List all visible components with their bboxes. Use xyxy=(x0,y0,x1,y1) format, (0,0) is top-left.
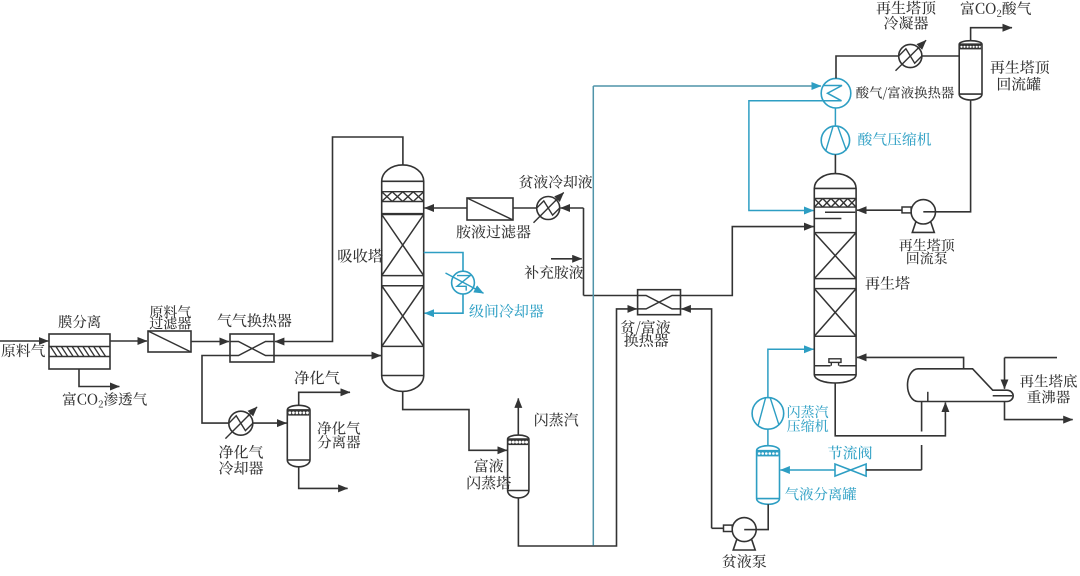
wire cooler to purge separator xyxy=(253,422,287,424)
wire rich heated to regenerator xyxy=(681,227,814,296)
wire CO2-rich permeate xyxy=(79,369,119,387)
raw gas filter 原料气过滤器 xyxy=(148,331,191,352)
label 再生塔 xyxy=(865,276,909,290)
wire reboiler liquid to throttle valve xyxy=(921,402,923,432)
absorber column 吸收塔 xyxy=(382,165,424,392)
label 再生塔底重沸器 xyxy=(1020,374,1077,388)
label 闪蒸汽压缩机 xyxy=(788,405,828,418)
wire hot stream inlet to reboiler xyxy=(1005,357,1058,359)
wire reflux to regenerator xyxy=(857,209,902,211)
lean amine pump 贫液泵 xyxy=(733,540,755,550)
wire flash vapor to acid-gas exchanger xyxy=(593,85,821,87)
regenerator column 再生塔 xyxy=(814,174,856,383)
wire valve to KO drum (cyan) xyxy=(780,469,835,471)
label 再生塔顶冷凝器 xyxy=(876,1,935,15)
kettle reboiler 再生塔底重沸器 xyxy=(907,369,1013,402)
acid-gas/rich-liquid exchanger 酸气/富液换热器 xyxy=(821,78,851,108)
lean/rich heat exchanger 贫/富液换热器 xyxy=(638,290,681,315)
purified gas cooler 净化气冷却器 xyxy=(229,411,253,435)
wire filter to lean cooler xyxy=(513,207,537,209)
wire rich CO2 acid gas product xyxy=(971,28,1012,41)
wire exchanger to condenser xyxy=(836,56,899,78)
wire lean pump discharge to exchanger xyxy=(681,309,711,528)
wire flash bottoms to exchanger xyxy=(518,309,636,546)
label 吸收塔 xyxy=(338,249,383,263)
wire lean pump discharge xyxy=(712,527,724,529)
wire flash vapor vent 闪蒸汽 xyxy=(517,398,519,435)
label 节流阀 xyxy=(828,446,872,460)
wire filter to gas-gas exchanger xyxy=(191,341,229,343)
label 富液闪蒸塔 xyxy=(474,458,503,472)
label 贫液冷却液 xyxy=(519,175,592,189)
label 净化气分离器 xyxy=(318,421,361,434)
label 酸气/富液换热器 xyxy=(856,86,954,100)
wire absorber overhead to exchanger xyxy=(275,137,403,342)
label 富CO2渗透气 xyxy=(63,392,147,407)
wire compressor to KO drum (cyan) xyxy=(767,429,769,446)
membrane separator 膜分离 xyxy=(49,334,110,369)
wire exchanger to compressor (cyan) xyxy=(834,108,836,126)
wire membrane to filter xyxy=(110,340,147,342)
label 再生塔顶回流罐 xyxy=(990,60,1049,74)
wire exchanger to absorber feed xyxy=(274,355,381,357)
reflux pump 再生塔顶回流泵 xyxy=(912,222,934,232)
gas-liquid separator drum 气液分离罐 xyxy=(757,446,780,505)
label 膜分离 xyxy=(58,315,100,328)
label 净化气冷却器 xyxy=(219,445,263,459)
amine filter 胺液过滤器 xyxy=(467,198,513,220)
lean amine cooler 贫液冷却液 xyxy=(537,197,560,220)
label 气气换热器 xyxy=(217,313,291,327)
wire reboiler vapor return xyxy=(857,357,964,368)
label 贫液泵 xyxy=(722,554,766,568)
rich flash tower 富液闪蒸塔 xyxy=(508,435,529,498)
regenerator overhead condenser 再生塔顶冷凝器 xyxy=(899,44,922,67)
label 富CO2酸气 xyxy=(961,1,1031,17)
wire exchanger shell out to regen (cyan) xyxy=(749,101,823,211)
interstage cooler 级间冷却器 xyxy=(452,271,475,294)
wire flash compressor to regenerator (cyan) xyxy=(768,349,814,397)
label 闪蒸汽 (flash steam) xyxy=(535,413,578,427)
label 酸气压缩机 xyxy=(858,132,931,146)
label 补充胺液 xyxy=(525,265,583,279)
wire purified gas outlet xyxy=(299,392,350,405)
wire flash vapor riser (cyan) xyxy=(592,86,594,546)
label 级间冷却器 xyxy=(469,304,543,318)
acid gas compressor 酸气压缩机 xyxy=(821,126,849,154)
label 再生塔顶回流泵 xyxy=(899,239,954,252)
wire compressor to regenerator top xyxy=(834,155,836,174)
wire reboiler product outlet xyxy=(1005,402,1073,420)
wire condenser to reflux drum xyxy=(922,55,959,57)
gas-gas heat exchanger 气气换热器 xyxy=(230,334,274,362)
label 原料气过滤器 xyxy=(150,305,191,318)
purified gas separator 净化气分离器 xyxy=(287,405,310,467)
wire raw gas inlet 原料气 xyxy=(0,340,48,342)
label 胺液过滤器 xyxy=(457,225,531,239)
wire KO drum to lean pump xyxy=(744,504,768,529)
wire rich feed arrow into regenerator xyxy=(809,226,811,228)
throttle valve 节流阀 xyxy=(835,464,866,476)
wire makeup amine 补充胺液 xyxy=(551,258,582,260)
wire absorber to interstage cooler xyxy=(424,253,463,272)
label 净化气 (purified gas) xyxy=(295,370,340,384)
wire drum to reflux pump xyxy=(923,100,970,212)
flash vapor compressor 闪蒸汽压缩机 xyxy=(752,398,784,430)
wire interstage cooler return xyxy=(425,294,463,313)
wire amine filter to absorber xyxy=(425,207,467,209)
wire regenerator bottoms to reboiler xyxy=(835,383,945,436)
wire lean to exchanger upper-left xyxy=(584,295,638,297)
label 贫/富液换热器 xyxy=(621,320,670,335)
label 原料气 (raw gas) xyxy=(1,344,45,358)
label 气液分离罐 xyxy=(785,487,856,500)
reflux drum 再生塔顶回流罐 xyxy=(959,41,982,100)
wire absorber bottoms to flash tower xyxy=(403,391,507,450)
wire separator bottom outlet xyxy=(299,467,348,489)
wire exchanger to purge gas cooler xyxy=(202,356,230,424)
wire lean cooler inlet riser xyxy=(561,207,584,209)
